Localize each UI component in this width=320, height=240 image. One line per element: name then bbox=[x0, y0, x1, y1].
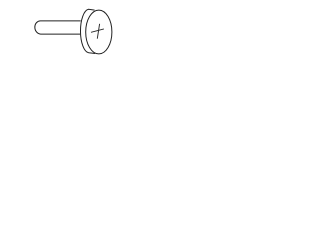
screw (pan-head machine screw, side view) bbox=[0, 0, 150, 62]
phillips cross vertical stroke bbox=[97, 24, 99, 39]
shank bbox=[35, 21, 81, 34]
head face (front ellipse) bbox=[86, 10, 112, 54]
phillips cross horizontal stroke bbox=[91, 29, 104, 32]
head side (back rim arc + silhouette tangents) bbox=[80, 9, 95, 53]
